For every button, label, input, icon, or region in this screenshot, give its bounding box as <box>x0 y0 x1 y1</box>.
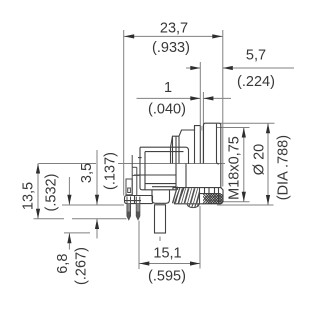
dimension 23,7 arrow left <box>124 34 134 38</box>
barrel chamfer left <box>171 126 201 148</box>
svg-text:(.224): (.224) <box>237 74 275 90</box>
svg-text:(.137): (.137) <box>103 152 119 190</box>
dimension dia20 arrow down <box>266 195 270 205</box>
pin 1 (left) <box>127 197 131 220</box>
mounting foot <box>152 190 170 203</box>
flange <box>125 196 153 204</box>
board lock clip <box>126 155 140 196</box>
knurl hatch band A <box>172 187 204 205</box>
svg-text:3,5: 3,5 <box>79 163 95 183</box>
dimension 23,7 / 5,7 shared extension line right <box>222 30 224 187</box>
dimension 15,1 arrow left <box>139 261 149 265</box>
bore line y=175 <box>134 174 176 176</box>
svg-text:(.933): (.933) <box>152 40 190 56</box>
svg-text:(.595): (.595) <box>148 269 186 285</box>
backshell inner bottom line <box>145 183 176 185</box>
dimension 6,8 upper shaft <box>68 177 70 205</box>
dimension 3,5 arrow up <box>95 219 99 229</box>
neck line x=177.5 <box>177 187 179 190</box>
barrel vertical x=172.5 <box>172 136 174 163</box>
dimension 5,7 line left stub <box>186 67 200 69</box>
barrel vertical x=194.5 <box>194 126 196 164</box>
dimension 6,8 lower shaft <box>68 233 70 249</box>
svg-text:(.267): (.267) <box>74 247 90 285</box>
centerline <box>39 163 97 165</box>
dimension 23,7 arrow right <box>212 34 222 38</box>
peg stub extension <box>159 237 161 242</box>
dimension 1 arrow right (points left) <box>203 96 213 100</box>
backshell left edge <box>140 147 177 190</box>
svg-text:23,7: 23,7 <box>160 21 188 37</box>
dimension dia20 arrow up <box>266 123 270 133</box>
bore vertical x=186 lower <box>185 164 187 188</box>
dimension 23,7 extension line left <box>123 30 125 196</box>
dimension M18 arrow up <box>242 128 246 138</box>
barrel vertical x=176 lower <box>175 136 177 190</box>
knurl crosshatch band B <box>200 193 230 204</box>
svg-text:1: 1 <box>164 80 172 96</box>
dimension M18 top extension <box>217 127 250 129</box>
cap bore vertical with fillet foot <box>217 124 220 164</box>
svg-text:15,1: 15,1 <box>153 246 181 262</box>
dimension 6,8 arrow down <box>67 195 71 205</box>
backshell inner top edge <box>145 152 184 190</box>
dimension M18 line <box>243 128 245 202</box>
dimension 13,5 arrow up <box>36 164 40 174</box>
dimension 15,1 arrow right <box>190 261 200 265</box>
solder peg <box>155 205 166 233</box>
gasket bump below nut <box>187 204 200 208</box>
centerline right part <box>118 163 225 165</box>
svg-text:(.040): (.040) <box>148 102 186 118</box>
pin tip extension line <box>34 218 65 220</box>
left edge tick <box>138 157 142 159</box>
groove edge x=200.3 <box>199 126 201 164</box>
dimension 1 line right <box>203 97 231 99</box>
dimension 3,5 upper shaft <box>96 150 98 205</box>
pin tip extension line right part <box>72 218 127 220</box>
dimension 1 arrow left (points right) <box>190 96 200 100</box>
dimension dia20 line <box>267 123 269 205</box>
dimension 1 extension line right <box>202 92 204 126</box>
dimension 5,7 line right leader <box>223 67 294 69</box>
dimension M18 arrow down <box>242 192 246 202</box>
mounting face extension line <box>62 204 124 206</box>
dimension 13,5 arrow down <box>36 209 40 219</box>
dimension 3,5 lower shaft <box>96 219 98 239</box>
dimension 15,1 extension line left <box>138 221 140 269</box>
peg bottom extension line <box>64 232 90 234</box>
barrel vertical x=170.5 <box>170 147 172 163</box>
front cap rounded <box>204 123 221 187</box>
coupling nut outline <box>173 188 223 204</box>
svg-text:13,5: 13,5 <box>21 182 37 210</box>
pin 2 (right) <box>136 197 140 220</box>
svg-text:(.532): (.532) <box>44 174 60 212</box>
dimension dia20 top extension <box>220 122 275 124</box>
groove shading <box>201 126 203 131</box>
dimension 15,1 extension line right <box>199 206 201 269</box>
connector body outlines <box>134 123 221 190</box>
dimension 5,7 arrow left (points right) <box>190 66 200 70</box>
svg-text:(DIA .788): (DIA .788) <box>275 135 291 200</box>
dimension 1 line left <box>137 97 201 99</box>
dimension 13,5 line <box>37 164 39 219</box>
dimension 5,7 arrow right (points left) <box>223 66 233 70</box>
backshell top edge with rounded right corner <box>140 147 189 164</box>
foot top line <box>152 186 176 188</box>
svg-text:M18x0,75: M18x0,75 <box>226 136 242 200</box>
dimension 23,7 line <box>124 35 223 37</box>
dimension 15,1 line <box>139 263 200 265</box>
groove edge x=203.4 <box>202 126 204 164</box>
svg-text:5,7: 5,7 <box>246 47 266 63</box>
dimension M18 bottom extension <box>219 201 250 203</box>
svg-text:Ø 20: Ø 20 <box>252 144 268 175</box>
dimension 3,5 arrow down <box>95 195 99 205</box>
dimension 6,8 arrow up <box>67 233 71 243</box>
dimension 1 extension line left <box>199 62 201 126</box>
dimension dia20 bottom extension <box>217 204 274 206</box>
svg-text:6,8: 6,8 <box>55 254 71 274</box>
barrel vertical x=179 <box>178 136 180 163</box>
